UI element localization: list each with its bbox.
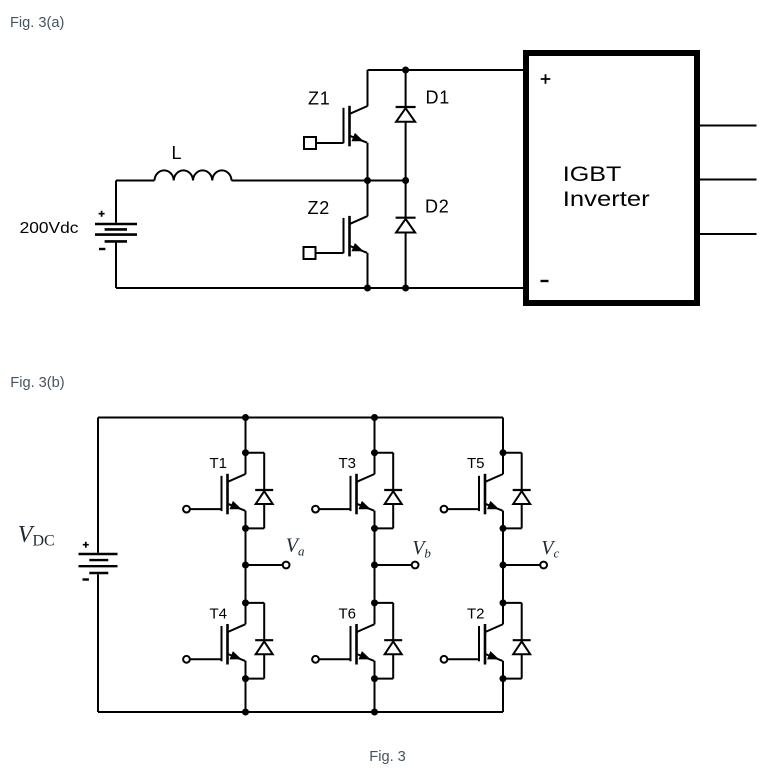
svg-text:T6: T6	[339, 605, 357, 622]
svg-text:L: L	[172, 143, 182, 163]
svg-text:Vb: Vb	[412, 537, 431, 561]
svg-text:IGBT: IGBT	[563, 162, 622, 186]
svg-text:VDC: VDC	[18, 522, 55, 550]
svg-text:Z2: Z2	[308, 198, 331, 218]
svg-text:T5: T5	[467, 455, 485, 472]
svg-text:D1: D1	[426, 88, 451, 108]
svg-text:D2: D2	[425, 197, 450, 217]
svg-text:T4: T4	[210, 605, 228, 622]
svg-text:T2: T2	[467, 605, 485, 622]
svg-text:Fig. 3(a): Fig. 3(a)	[10, 15, 64, 31]
svg-text:Fig. 3: Fig. 3	[369, 749, 406, 765]
svg-text:Fig. 3(b): Fig. 3(b)	[10, 375, 64, 391]
svg-text:Vc: Vc	[541, 537, 559, 561]
svg-text:Z1: Z1	[308, 89, 331, 109]
svg-text:T3: T3	[339, 455, 357, 472]
svg-text:200Vdc: 200Vdc	[20, 220, 79, 237]
svg-text:T1: T1	[210, 455, 228, 472]
svg-text:Va: Va	[286, 535, 305, 559]
svg-text:Inverter: Inverter	[563, 187, 650, 211]
